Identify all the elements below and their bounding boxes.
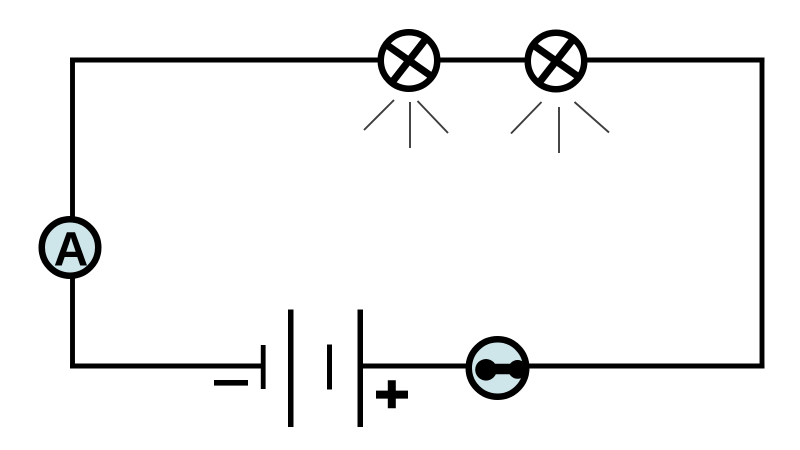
svg-text:A: A <box>54 224 89 277</box>
lamp L2 light rays <box>511 102 609 153</box>
wire: left vertical <box>70 58 75 369</box>
lamp L2 <box>528 33 585 90</box>
lamp L1 light rays <box>364 100 448 148</box>
lamp L1 <box>381 32 438 89</box>
battery plate long (positive, cell 1) <box>288 310 294 428</box>
battery plate short (negative, cell 1) <box>261 345 266 389</box>
switch S1 (closed) <box>469 339 527 397</box>
label plus <box>376 380 408 408</box>
wire: bottom left segment <box>70 364 263 369</box>
wire: top horizontal <box>70 58 765 63</box>
label minus <box>214 380 248 386</box>
ammeter A1 <box>42 219 99 276</box>
wire: right vertical <box>760 58 765 369</box>
battery plate short (negative, cell 2) <box>327 345 332 390</box>
wire: bottom right segment <box>360 364 765 369</box>
battery plate long (positive, cell 2) <box>358 310 364 428</box>
battery B1 <box>214 310 408 428</box>
